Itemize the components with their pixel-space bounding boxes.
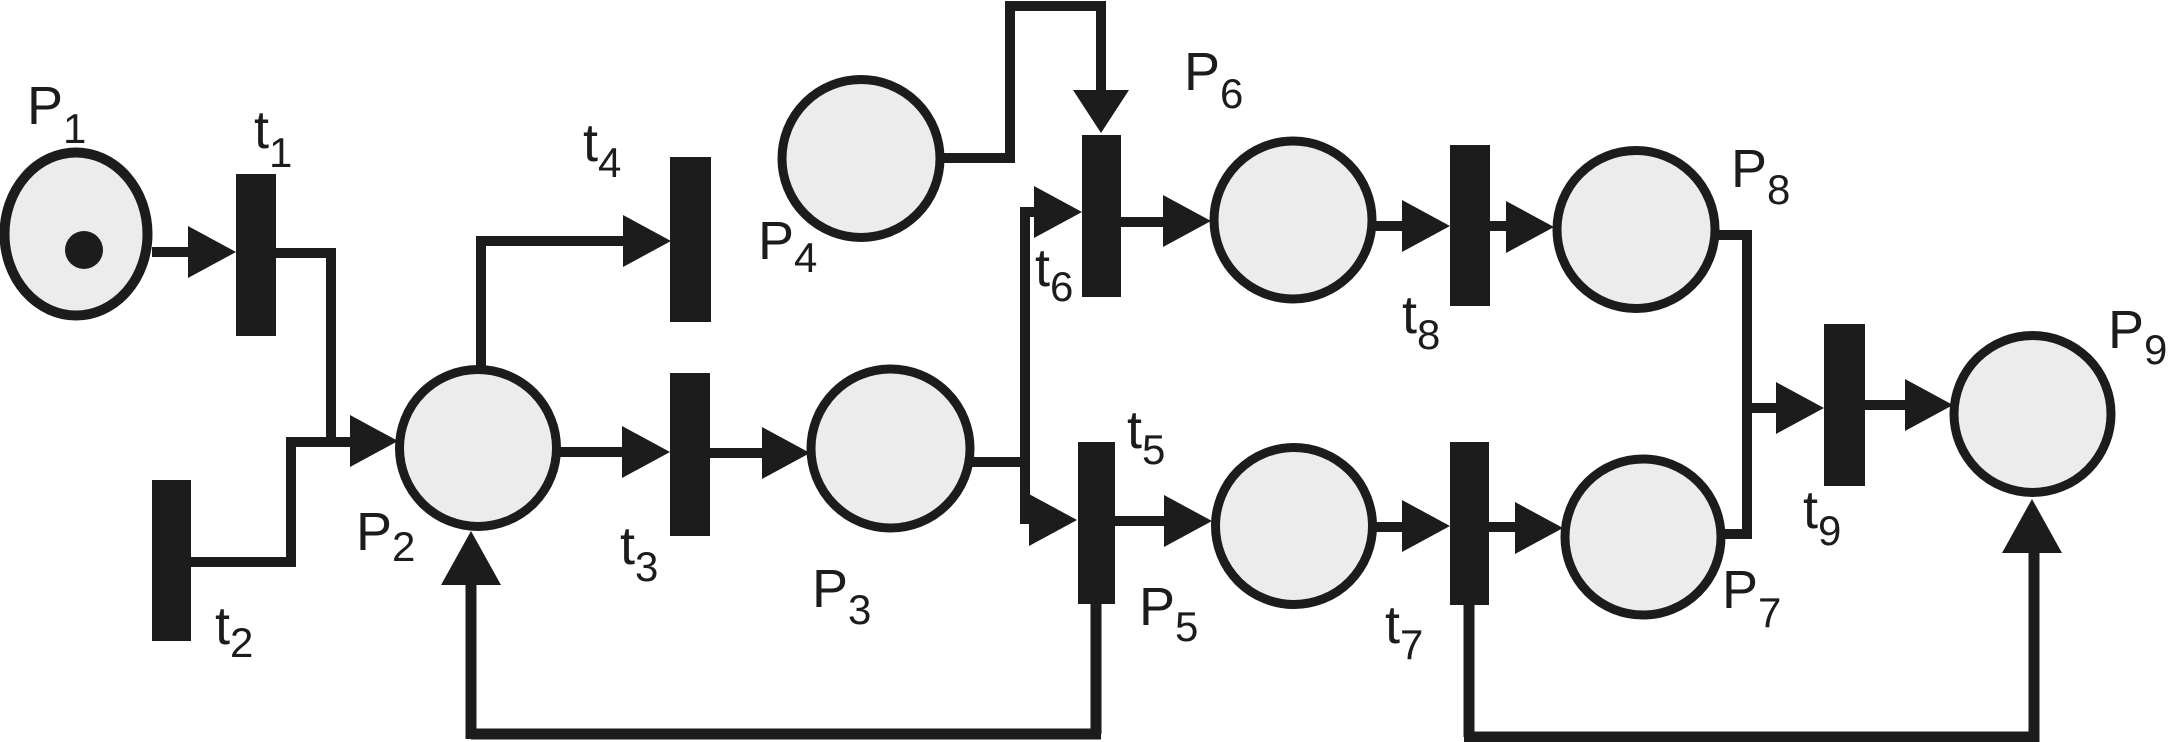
wire P1 to t1 xyxy=(152,247,196,257)
svg-text:t2: t2 xyxy=(215,596,253,666)
wire P2 to t4 xyxy=(476,241,627,370)
svg-text:t7: t7 xyxy=(1385,595,1423,668)
place P3 xyxy=(811,369,970,528)
wire t7 feedback to P9 xyxy=(1464,549,2034,742)
svg-text:t6: t6 xyxy=(1035,238,1073,310)
arrowhead into t9 xyxy=(1776,382,1824,434)
wire t8 to P8 xyxy=(1490,221,1510,231)
wire t9 to P9 xyxy=(1865,400,1909,410)
wire t3 to P3 xyxy=(710,448,766,458)
place P9 xyxy=(1954,336,2111,493)
wire t1 output to P2 xyxy=(276,248,331,442)
svg-text:P2: P2 xyxy=(356,502,415,570)
wire t2 output to P2 xyxy=(191,442,352,567)
arrowhead into P8 xyxy=(1506,201,1554,253)
svg-text:P7: P7 xyxy=(1722,560,1781,636)
transition t4 xyxy=(670,157,711,322)
transition t8 xyxy=(1450,145,1490,306)
wire t5 to P5 xyxy=(1115,516,1168,526)
wire P8 and P7 to t9 xyxy=(1711,230,1780,539)
svg-text:P9: P9 xyxy=(2108,300,2167,373)
place P7 xyxy=(1565,459,1721,615)
wire P2 to t3 xyxy=(552,447,626,457)
svg-text:t5: t5 xyxy=(1127,400,1165,473)
arrowhead into P2 from t1/t2 xyxy=(350,415,398,467)
arrowhead P1 to t1 xyxy=(188,226,236,278)
svg-text:t3: t3 xyxy=(620,516,658,590)
place P1 xyxy=(5,153,148,316)
arrowhead into t6 top (down) xyxy=(1073,90,1129,133)
transition t3 xyxy=(670,373,710,536)
arrowhead into P6 xyxy=(1163,195,1211,247)
svg-text:P1: P1 xyxy=(27,76,86,152)
token in P1 xyxy=(65,231,103,269)
place P2 xyxy=(400,370,557,527)
arrowhead into t8 xyxy=(1402,200,1450,252)
svg-text:P5: P5 xyxy=(1139,577,1198,650)
transition t2 xyxy=(152,480,191,641)
transition t1 xyxy=(236,174,276,336)
place P4 xyxy=(782,80,940,238)
wire t5 feedback to P2 xyxy=(471,580,1101,739)
wire t7 to P7 xyxy=(1489,522,1519,532)
wire P3 split to t6 and t5 xyxy=(966,207,1038,524)
svg-text:t1: t1 xyxy=(254,100,292,176)
wire t6 to P6 xyxy=(1121,217,1167,227)
place P6 xyxy=(1214,141,1372,299)
arrowhead into P9 bottom (up) xyxy=(2002,499,2062,553)
transition t7 xyxy=(1450,442,1489,605)
arrowhead into P3 xyxy=(762,427,810,479)
arrowhead into P5 xyxy=(1164,495,1212,547)
arrowhead into P9 left xyxy=(1905,379,1953,431)
transition t9 xyxy=(1824,324,1865,486)
svg-text:t4: t4 xyxy=(583,113,621,186)
arrowhead into t6 left xyxy=(1034,186,1082,238)
svg-text:P8: P8 xyxy=(1731,139,1790,213)
svg-text:P3: P3 xyxy=(812,559,871,633)
wire P4 to t6 top xyxy=(938,1,1101,163)
arrowhead into t7 xyxy=(1402,500,1450,552)
wire P5 to t7 xyxy=(1372,522,1406,532)
arrowhead into P7 xyxy=(1515,502,1563,554)
place P8 xyxy=(1557,151,1715,309)
transition t5 xyxy=(1078,442,1115,604)
wire P6 to t8 xyxy=(1371,221,1406,231)
svg-text:P6: P6 xyxy=(1184,42,1243,117)
arrowhead into t5 left xyxy=(1029,494,1077,546)
place P5 xyxy=(1216,448,1373,605)
arrowhead into t4 xyxy=(623,215,671,267)
transition t6 xyxy=(1082,135,1121,297)
arrowhead into P2 bottom (up) xyxy=(441,531,501,585)
svg-text:t9: t9 xyxy=(1803,480,1841,554)
svg-text:t8: t8 xyxy=(1402,285,1440,358)
arrowhead into t3 xyxy=(622,426,670,478)
